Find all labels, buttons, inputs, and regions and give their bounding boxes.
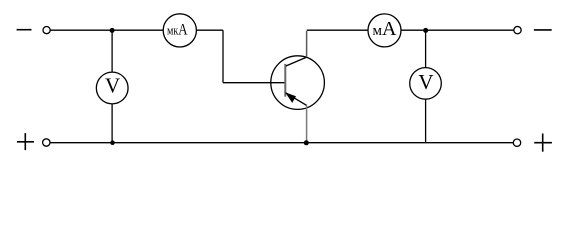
- svg-text:V: V: [105, 73, 120, 97]
- svg-text:V: V: [418, 70, 433, 94]
- svg-text:мкА: мкА: [167, 21, 188, 38]
